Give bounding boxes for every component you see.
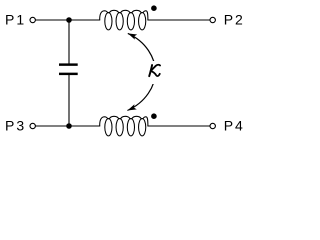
- svg-text:P3: P3: [5, 118, 26, 134]
- svg-text:P1: P1: [5, 12, 26, 28]
- svg-text:P4: P4: [224, 118, 245, 134]
- svg-text:P2: P2: [224, 12, 245, 28]
